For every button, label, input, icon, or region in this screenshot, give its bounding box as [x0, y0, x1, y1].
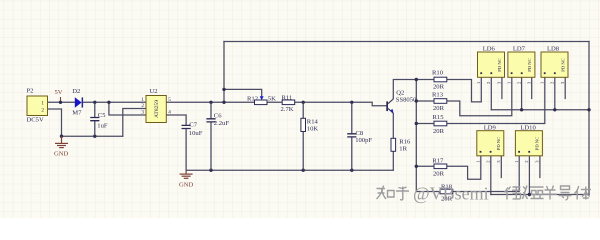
wire R12 wiper feed vertical: [223, 42, 225, 103]
junction R14 bottom: [302, 169, 305, 172]
wire R13 left lead: [416, 100, 434, 102]
junction ground rail at GND left: [60, 135, 63, 138]
svg-text:GND: GND: [179, 182, 194, 189]
ground GND middle: [180, 170, 193, 178]
svg-text:2: 2: [141, 103, 144, 109]
junction LED bus R13: [415, 99, 418, 102]
LED module LD7: [506, 46, 535, 84]
junction C8 bottom: [350, 169, 353, 172]
wire bottom ground rail: [186, 169, 393, 171]
svg-text:20R: 20R: [433, 128, 445, 135]
svg-text:U2: U2: [150, 88, 158, 95]
wire R18 left lead: [416, 191, 440, 193]
junction LED bus R17: [415, 165, 418, 168]
wire U2 pin5 main 5V rail to Q2 base: [166, 102, 386, 106]
wire LD10 pin2 to return: [528, 156, 530, 195]
junction wiper branch: [222, 88, 225, 91]
wire P2 pin1 to D2 anode: [48, 101, 75, 103]
wire Q2 emitter to R16: [392, 114, 394, 139]
svg-text:1: 1: [41, 100, 44, 106]
svg-text:2.7K: 2.7K: [281, 106, 294, 113]
junction LD10 pin2 return: [528, 193, 531, 196]
svg-text:C7: C7: [189, 122, 197, 129]
resistor R11: [281, 95, 295, 114]
resistor R15: [433, 114, 447, 135]
wire wiper branch: [224, 89, 262, 96]
wire LD9 pin3 stub: [500, 156, 502, 178]
junction wiper vertical on main rail: [222, 101, 225, 104]
capacitor C8: [347, 102, 372, 170]
junction collector at LED bus: [415, 78, 418, 81]
svg-text:R12: R12: [247, 95, 258, 102]
wire R10 to LD6 pin1: [447, 77, 482, 102]
junction U2 pin3 branch: [107, 101, 110, 104]
svg-text:P2: P2: [27, 88, 34, 95]
svg-text:R17: R17: [432, 158, 444, 165]
wire LD10 pin3 stub: [539, 156, 541, 178]
svg-text:5K: 5K: [268, 95, 276, 102]
svg-text:R15: R15: [433, 114, 445, 121]
transistor Q2: [386, 90, 417, 114]
wire P2 pin2 down to ground rail: [48, 109, 62, 136]
svg-text:R11: R11: [282, 95, 293, 102]
svg-text:1R: 1R: [399, 145, 407, 152]
net label 5V: [55, 89, 63, 102]
svg-text:R14: R14: [307, 119, 319, 126]
svg-text:3: 3: [141, 110, 144, 116]
wire D2 cathode to U2 pin 1: [83, 101, 146, 103]
svg-text:LD7: LD7: [513, 46, 526, 53]
svg-text:PD NC: PD NC: [496, 137, 501, 150]
junction C5 top: [93, 101, 96, 104]
wire LD6 pin3 stub: [501, 77, 503, 98]
svg-text:LD9: LD9: [484, 124, 497, 131]
svg-text:5V: 5V: [55, 89, 63, 96]
svg-text:PD NC: PD NC: [527, 58, 532, 71]
ground GND left: [55, 136, 68, 147]
junction return right edge: [587, 108, 590, 111]
wire LD8 pin3 stub: [564, 77, 566, 98]
junction LED bus R15: [415, 122, 418, 125]
svg-text:5: 5: [168, 97, 171, 103]
junction C6 top: [209, 101, 212, 104]
junction 5V power port: [59, 101, 62, 104]
svg-text:D2: D2: [72, 88, 80, 95]
svg-text:R10: R10: [432, 70, 444, 77]
wire top rail to LED common: [224, 41, 589, 43]
capacitor C5: [90, 102, 108, 136]
svg-text:100pF: 100pF: [355, 137, 372, 144]
LED module LD9: [475, 124, 503, 163]
wire R13 to LD7 pin1: [447, 77, 512, 116]
svg-text:1uF: 1uF: [97, 123, 108, 130]
diode D2: [72, 88, 83, 116]
svg-text:1: 1: [141, 97, 144, 103]
wire LD7 pin3 stub: [531, 77, 533, 98]
connector P2: [27, 88, 48, 124]
wire LD7 pin2 to return: [521, 77, 523, 110]
svg-text:LD10: LD10: [520, 124, 536, 131]
resistor R10: [432, 70, 447, 91]
LED module LD10: [514, 124, 542, 163]
wire LED driver bus vertical: [415, 80, 417, 192]
svg-text:4: 4: [168, 110, 171, 116]
wire R18 to LD10 pin1: [453, 156, 519, 192]
junction C8 top: [350, 101, 353, 104]
svg-text:R13: R13: [432, 92, 444, 99]
svg-text:C6: C6: [214, 113, 222, 120]
svg-text:10K: 10K: [307, 126, 319, 133]
wire Q2 collector to R10: [393, 80, 434, 99]
svg-text:LD6: LD6: [483, 46, 496, 53]
wire R17 to LD9 pin1: [447, 156, 481, 179]
svg-text:GND: GND: [54, 151, 69, 158]
junction C6 bottom: [209, 169, 212, 172]
wire R16 to ground rail: [392, 151, 394, 170]
svg-text:PD NC: PD NC: [497, 58, 502, 71]
svg-text:LD8: LD8: [547, 46, 560, 53]
junction LD8 pin2 return: [553, 108, 556, 111]
junction LD7 pin2 return: [520, 108, 523, 111]
svg-text:SS8050: SS8050: [396, 96, 417, 103]
capacitor C7: [182, 122, 203, 171]
wire LD6 pin2 to return: [490, 77, 492, 110]
wire R15 to LD8 pin1: [447, 77, 545, 123]
svg-text:20R: 20R: [433, 105, 445, 112]
wire LD9 pin2 to return: [490, 156, 492, 195]
svg-text:C5: C5: [98, 112, 106, 119]
wire left ground rail: [62, 135, 123, 137]
wire right edge vertical: [588, 42, 590, 195]
wire U2 pin4 to C7: [166, 115, 186, 125]
svg-text:2: 2: [41, 107, 44, 113]
resistor R13: [432, 92, 447, 113]
svg-text:10uF: 10uF: [189, 130, 203, 137]
svg-text:2.2uF: 2.2uF: [214, 120, 230, 127]
wire junction to U2 pin3: [109, 102, 146, 115]
resistor R17: [432, 158, 447, 178]
wire U2 pin2 to ground rail: [123, 109, 146, 137]
wire LED return bottom row: [491, 194, 589, 196]
svg-text:M7: M7: [72, 109, 82, 116]
svg-text:20R: 20R: [433, 84, 445, 91]
watermark zhihu: [377, 186, 592, 201]
potentiometer R12: [247, 95, 276, 104]
wire LED return top row: [491, 109, 589, 111]
svg-text:DC5V: DC5V: [27, 117, 44, 124]
LED module LD6: [476, 46, 505, 84]
svg-text:@VBsemi: @VBsemi: [413, 184, 489, 204]
svg-text:PD NC: PD NC: [560, 58, 565, 71]
resistor R18: [440, 183, 453, 202]
wire LD8 pin2 to return: [554, 77, 556, 110]
IC U2: [141, 88, 171, 123]
resistor R14: [301, 102, 319, 170]
LED module LD8: [539, 46, 568, 84]
svg-text:20R: 20R: [433, 171, 445, 178]
junction C5 bottom: [93, 135, 96, 138]
svg-text:PD NC: PD NC: [535, 137, 540, 150]
wire R15 left lead: [416, 123, 434, 125]
capacitor C6: [206, 102, 229, 170]
resistor R16: [391, 138, 411, 152]
wire R17 left lead: [416, 165, 434, 167]
junction R14 top: [302, 101, 305, 104]
svg-text:AT8259: AT8259: [154, 100, 160, 118]
